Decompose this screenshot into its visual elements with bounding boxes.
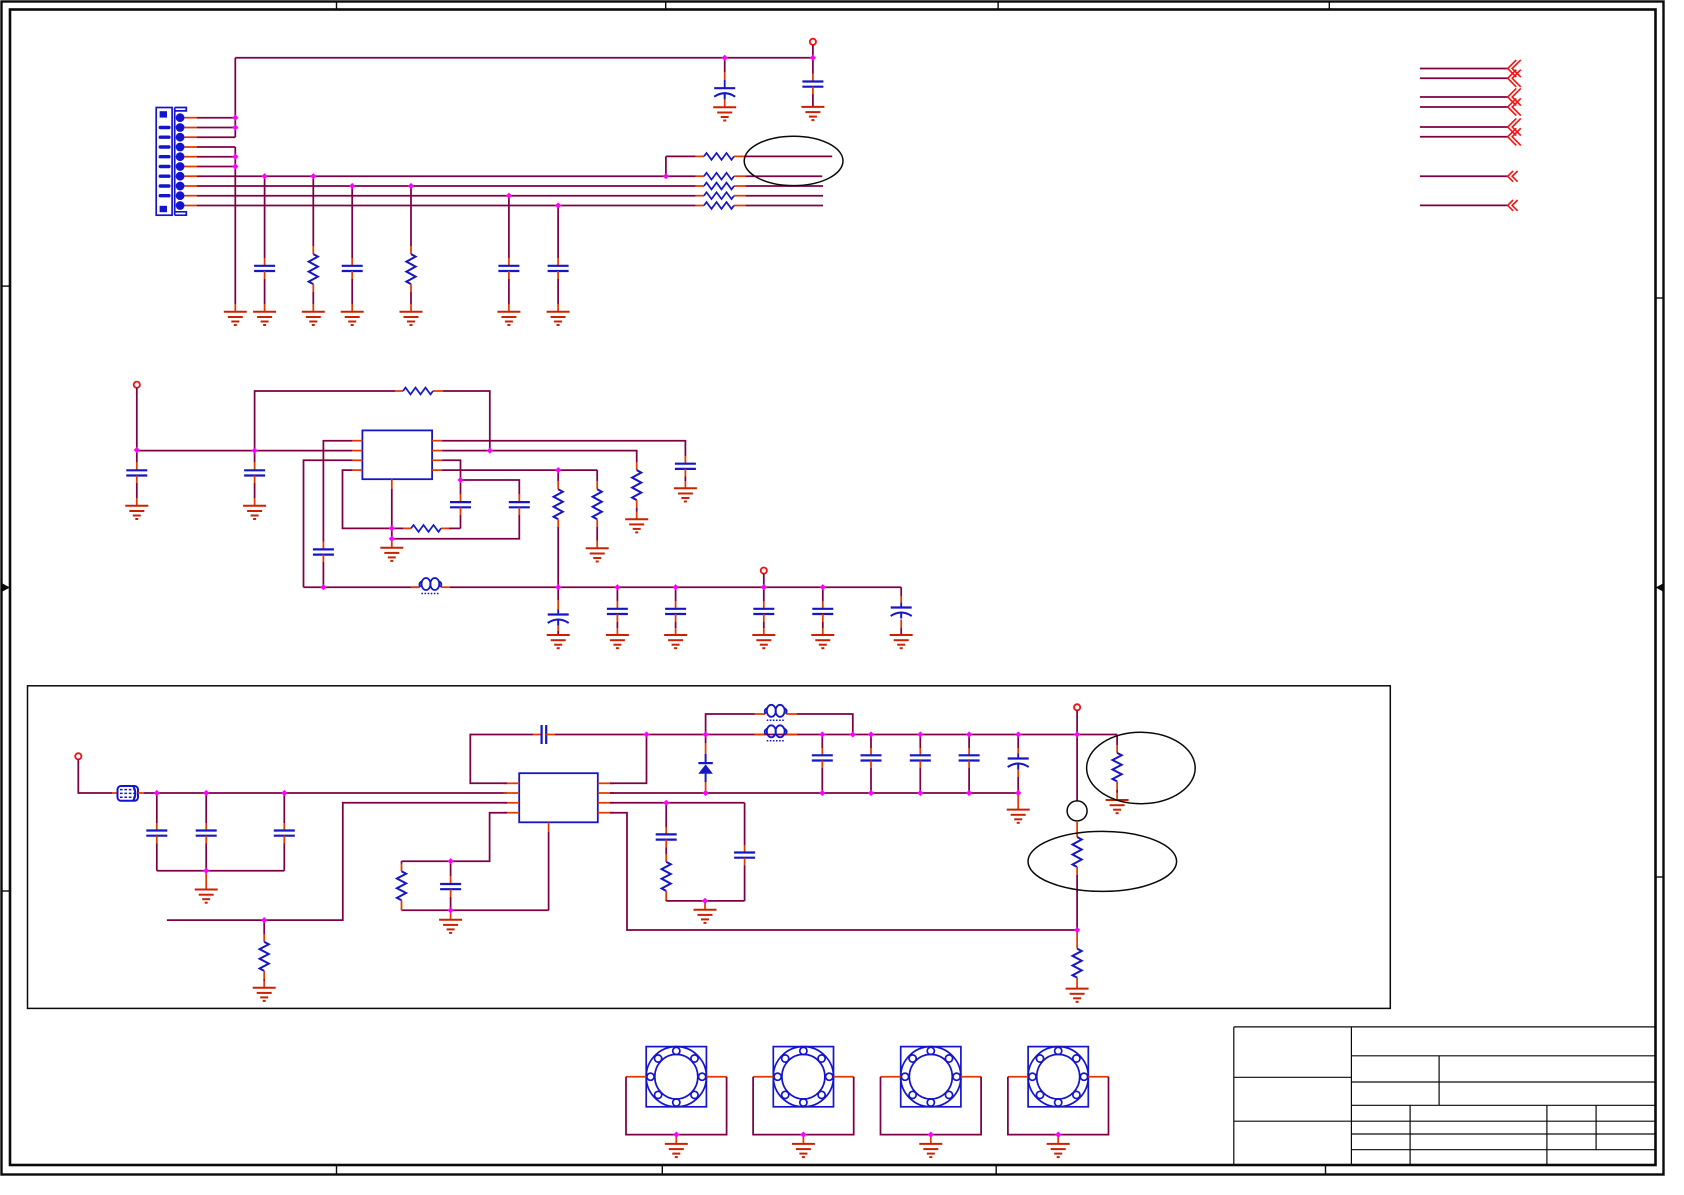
capacitor C29 [656, 834, 677, 839]
resistor R15 [1073, 949, 1082, 978]
resistor R13 [1113, 753, 1122, 782]
junction C9 rail [320, 584, 326, 590]
off-page net line 8 [1420, 204, 1508, 206]
junction U1 bottom / R4 [389, 525, 395, 531]
resistor R14 [1073, 837, 1082, 867]
capacitor C26 [959, 755, 980, 760]
wire bead to U2 [138, 792, 144, 794]
capacitor C24 [861, 755, 882, 760]
resistor R12 [554, 489, 563, 519]
resistor R13 lower lead [1116, 781, 1118, 790]
resistor R15 lower lead [1076, 978, 1078, 989]
wire VIN2 horizontal to U1 [137, 450, 353, 452]
wire U1 pin3 left to rail [304, 460, 353, 587]
junction pin1 [232, 115, 238, 121]
capacitor C4 lower lead [351, 271, 353, 279]
capacitor C21 lower lead [283, 836, 285, 844]
capacitor C13 [607, 609, 628, 614]
ground for C4 [341, 312, 364, 325]
capacitor C4 [342, 266, 363, 271]
junction C19 [154, 790, 160, 796]
capacitor C10 lead [460, 480, 462, 494]
resistor R6 [704, 173, 734, 180]
capacitor C7 lower lead [136, 476, 138, 484]
resistor R14 lower lead [1076, 867, 1078, 875]
ground for C13 [606, 635, 629, 648]
wire SIG1 branch up [665, 156, 667, 176]
ground for R10 [625, 519, 648, 532]
mounting hole MH2 ground stub [802, 1135, 804, 1144]
border zone ticks top [337, 2, 1330, 10]
junction L2 branch right [850, 731, 856, 737]
capacitor C3 lower lead [264, 271, 266, 279]
junction SIG3 at C5 [506, 193, 512, 199]
off-page chevron arrow 2 [1508, 70, 1521, 87]
capacitor C19 [146, 831, 167, 836]
resistor R9 leads [696, 205, 704, 207]
off-page net line 4 [1420, 106, 1508, 108]
inductor L3 [765, 725, 787, 737]
resistor R18 lead [263, 920, 265, 934]
diode D1 [698, 754, 713, 782]
mounting hole MH1 stubs [626, 1076, 646, 1078]
capacitor C30 [440, 884, 461, 889]
wire U2 pin1 left boost loop [470, 735, 533, 784]
junction at C7 [252, 448, 258, 454]
capacitor C10 [450, 502, 471, 507]
capacitor C21 lead [283, 793, 285, 823]
ground for MH4 [1047, 1144, 1070, 1157]
wire U1 pin2 right [442, 451, 637, 462]
wire R4 right to C10 node [449, 527, 461, 529]
wire U2 pin4 right to feedback [610, 813, 1077, 930]
wire pin3 to VCC node [197, 136, 235, 138]
wire GND vertical drop [234, 147, 236, 304]
wire pin3 bottom return [666, 900, 744, 902]
inductor L3 leads [755, 734, 766, 736]
junction bus C25 [917, 790, 923, 796]
capacitor C7 lead [136, 450, 138, 462]
wire cap bank bottom bus [157, 870, 284, 872]
wire VIN2 drop [136, 388, 138, 450]
junction boost/pin1 riser [643, 731, 649, 737]
capacitor C27 lower lead [1017, 770, 1019, 778]
capacitor C22 series lead [533, 734, 542, 736]
off-page net line 6 [1420, 136, 1508, 138]
capacitor C17 lower lead [822, 614, 824, 622]
wire net SIG2 pin8 [197, 185, 696, 187]
resistor R2 lower lead [410, 284, 412, 292]
capacitor C17 [812, 609, 833, 614]
resistor R17 lead [401, 861, 403, 863]
wire U2 pin2 output bus [610, 792, 1018, 794]
wire VCC vertical riser [234, 58, 236, 137]
ground for C6 [547, 312, 570, 325]
wire U1 pin1 left [323, 441, 352, 542]
mounting hole MH3 wires [881, 1077, 982, 1135]
junction pin3 loop [457, 477, 463, 483]
resistor R1 lower lead [312, 284, 314, 292]
ground for R13 [1106, 800, 1129, 813]
capacitor C24 lower lead [870, 761, 872, 769]
wire R4 left lead [392, 527, 403, 529]
ground for R11 [586, 548, 609, 561]
resistor R7 leads [696, 185, 704, 187]
capacitor C9 lower lead [322, 555, 324, 562]
capacitor C16 lead [763, 587, 765, 601]
ground stub cap bank [205, 871, 207, 890]
wire loop to C11 [461, 480, 520, 494]
junction rail C13 [614, 584, 620, 590]
wire pin1 riser [610, 735, 647, 784]
mounting hole MH1 wires [626, 1077, 727, 1135]
off-page chevron arrow 1 [1508, 60, 1521, 77]
capacitor C2 lower lead [812, 87, 814, 94]
wire VCC top rail [235, 57, 813, 59]
mounting hole MH3 stubs [881, 1076, 901, 1078]
capacitor C29 lead [665, 803, 667, 827]
connector J1 contact bars [159, 126, 171, 129]
wire terminal VOUT2 stub [763, 574, 765, 588]
off-page net line 3 [1420, 96, 1508, 98]
junction SIG4 at C6 [555, 202, 561, 208]
capacitor C11 [509, 502, 530, 507]
junction rail C14 [673, 584, 679, 590]
junction pin5 [232, 154, 238, 160]
wire R16 corner [665, 900, 667, 901]
ground for MH2 [792, 1144, 815, 1157]
diode D1 lead bottom [705, 782, 707, 790]
ground for bus end [1007, 810, 1030, 823]
ground stub U1 [391, 539, 393, 548]
junction C30 bottom [448, 907, 454, 913]
resistor R8 [704, 192, 734, 199]
capacitor C3 [254, 266, 275, 271]
junction VCC rail C2 [810, 55, 816, 61]
ellipse callout R13 [1087, 732, 1196, 803]
capacitor C23 lower lead [821, 761, 823, 769]
resistor R18 lower lead [263, 971, 265, 979]
mounting hole MH4 junction [1055, 1132, 1061, 1138]
junction C21 [281, 790, 287, 796]
off-page chevron arrow 8 [1508, 200, 1518, 211]
ground for C30 node [439, 920, 462, 933]
wire pin6 to GND net [197, 166, 235, 168]
junction pin3 branch [663, 800, 669, 806]
mounting hole MH1 pad [646, 1047, 706, 1107]
capacitor C26 lead [968, 735, 970, 749]
wire bottom node [391, 528, 393, 538]
junction D1 bus [703, 790, 709, 796]
capacitor C25 lead [919, 735, 921, 749]
wire terminal VOUT3 stub [1076, 710, 1078, 734]
junction top C23 [819, 731, 825, 737]
wire R3 to pin2 node [443, 391, 490, 451]
connector J1 pins [176, 113, 185, 122]
junction bus end [1015, 790, 1021, 796]
capacitor C16 [753, 609, 774, 614]
junction R12 rail [555, 584, 561, 590]
off-page chevron arrow 3 [1508, 88, 1521, 105]
wire drop at x=558.1 [557, 206, 559, 259]
wire U2 pin4 left [451, 813, 507, 862]
capacitor C18 lower lead [900, 620, 902, 629]
capacitor C12 lead [684, 456, 686, 464]
wire R6 to output [746, 175, 823, 177]
U1 left pin stubs [352, 440, 362, 442]
wire drop at x=352.2 [351, 186, 353, 258]
capacitor C19 lower lead [156, 836, 158, 844]
capacitor C19 lead [156, 793, 158, 823]
junction feedback node [1074, 927, 1080, 933]
off-page chevron arrow 5 [1508, 118, 1521, 135]
junction top C25 [917, 731, 923, 737]
mounting hole MH4 pad [1028, 1047, 1088, 1107]
capacitor C18 (polarized) lead [900, 587, 902, 596]
resistor R12 lead [557, 470, 559, 481]
wire pin5 to GND net [197, 156, 235, 158]
ground for C1 [713, 107, 736, 120]
junction bus C24 [868, 790, 874, 796]
junction pin4 left branch [448, 858, 454, 864]
wire to R17 [402, 860, 451, 862]
junction pin6 [232, 163, 238, 169]
terminal VOUT3 [1074, 704, 1080, 710]
wire U1 pin3 right [442, 460, 460, 480]
wire U1 pin1 right [442, 441, 685, 456]
off-page chevron arrow 4 [1508, 98, 1521, 115]
junction SIG2 at C4 [349, 183, 355, 189]
ground stub bus end [1017, 793, 1019, 810]
capacitor C27 (polarized) lead [1017, 735, 1019, 749]
title block outline [1234, 1027, 1656, 1164]
diode D1 lead top [705, 735, 707, 744]
resistor R3 [403, 388, 433, 395]
junction bus C26 [966, 790, 972, 796]
U2 right pin stubs [598, 782, 614, 784]
terminal VIN2 [134, 382, 140, 388]
mounting hole MH1 junction [673, 1132, 679, 1138]
ground stub pin3 node [704, 901, 706, 910]
capacitor C28 [734, 853, 755, 858]
wire R8 to output [746, 195, 823, 197]
junction VIN2 [134, 447, 140, 453]
inductor L2 [765, 705, 787, 717]
wire drop at x=313.3 [312, 176, 314, 246]
wire SIG1 to R6 [666, 175, 696, 177]
wire U1 pin4 left wrap [343, 470, 392, 528]
resistor R9 [704, 202, 734, 209]
ground for pin3 node [694, 910, 717, 923]
resistor R3 leads [395, 390, 403, 392]
capacitor C12 [675, 464, 696, 469]
capacitor C14 lead [675, 587, 677, 601]
border zone ticks bottom [337, 1164, 1326, 1174]
border center arrow right [1656, 584, 1664, 592]
capacitor C11 lead [518, 494, 520, 502]
title block table grid [1351, 1105, 1655, 1165]
capacitor C29 lower lead [665, 840, 667, 848]
capacitor C6 [548, 266, 569, 271]
junction SIG1 at R1 [310, 173, 316, 179]
resistor R5 [704, 153, 734, 160]
junction rail C16 [820, 584, 826, 590]
wire output rail VOUT [304, 586, 420, 588]
op-amp U2 converter body [519, 773, 598, 822]
capacitor C16 lower lead [763, 614, 765, 622]
junction SIG2 at R2 [408, 183, 414, 189]
junction VOUT3 [1074, 731, 1080, 737]
wire pin1 to VCC node [197, 117, 235, 119]
op-amp U1 regulator body [362, 430, 432, 479]
wire U1 bottom pin down [391, 489, 393, 528]
wire R9 to output [746, 205, 823, 207]
resistor R10 lead [636, 462, 638, 470]
off-page net line 1 [1420, 68, 1508, 70]
wire pin3 corner down [744, 803, 746, 845]
wire U2 pin3 right [610, 802, 745, 804]
junction R3/pin2 [487, 448, 493, 454]
capacitor C13 lead [616, 587, 618, 601]
capacitor C15 polarized [548, 615, 569, 626]
wire drop at x=411.0 [410, 186, 412, 246]
ground for C3 [253, 312, 276, 325]
border zone ticks left [2, 286, 11, 891]
wire output rail VOUT right [450, 586, 901, 588]
junction VCC rail C1 [722, 55, 728, 61]
capacitor C13 lower lead [616, 614, 618, 622]
connector J1 polarization squares [160, 111, 167, 117]
junction pin2 [232, 124, 238, 130]
inductor L2 leads [755, 713, 766, 715]
wire U2 bottom return line [402, 909, 549, 911]
inductor L1 [411, 586, 420, 588]
ground for cap bank [195, 890, 218, 903]
capacitor C5 lower lead [508, 271, 510, 279]
capacitor C22 right lead [546, 734, 555, 736]
mounting hole MH2 wires [753, 1077, 854, 1135]
ground for C8 [243, 506, 266, 519]
ground for C12 [674, 488, 697, 501]
junction bus C23 [819, 790, 825, 796]
mounting hole MH3 ground stub [930, 1135, 932, 1144]
border zone ticks right [1656, 298, 1665, 877]
capacitor C30 lower lead [450, 889, 452, 897]
junction top C27 [1015, 731, 1021, 737]
wire net SIG4 pin10 [197, 205, 696, 207]
mounting hole MH4 ground stub [1057, 1135, 1059, 1144]
resistor R11 [593, 489, 602, 519]
resistor R18 [260, 942, 269, 971]
ground for C18 [890, 635, 913, 648]
title block right rows [1351, 1056, 1655, 1106]
junction rail terminal [761, 584, 767, 590]
junction top C24 [868, 731, 874, 737]
wire U2 pin3 left [167, 803, 507, 920]
capacitor C17 lead [822, 587, 824, 601]
capacitor C26 lower lead [968, 761, 970, 769]
inductor L2 right lead [786, 713, 797, 715]
capacitor C15 (polarized) lead [557, 587, 559, 600]
title block left column rows [1234, 1077, 1352, 1121]
ground for R1 [302, 312, 325, 325]
ground for MH3 [919, 1144, 942, 1157]
power section enclosure box [28, 686, 1391, 1009]
mounting hole MH1 ground stub [675, 1135, 677, 1144]
mounting hole MH4 wires [1008, 1077, 1109, 1135]
ground for C14 [664, 635, 687, 648]
U1 right pin stubs [432, 440, 442, 442]
capacitor C1 polarized [714, 88, 735, 99]
ground for R18 [253, 988, 276, 1001]
wire net SIG3 pin9 [197, 195, 696, 197]
ground for C7 [125, 506, 148, 519]
terminal VOUT2 [761, 568, 767, 574]
wire net SIG1 pin7 [197, 175, 666, 177]
capacitor C10 lower lead [460, 507, 462, 515]
U1 bottom pin stub [391, 479, 393, 489]
resistor R5 leads [696, 155, 704, 157]
wire boost top line [555, 734, 1117, 736]
capacitor C21 [274, 831, 295, 836]
capacitor C8 lead [254, 451, 256, 462]
resistor R1 [309, 254, 318, 284]
ground connector GND pins [224, 312, 247, 325]
resistor R6 leads [696, 175, 704, 177]
capacitor C11 lower lead [518, 507, 520, 515]
off-page net line 7 [1420, 175, 1508, 177]
junction ground node [389, 536, 395, 542]
resistor R10 [632, 470, 641, 500]
mounting hole MH3 pad [901, 1047, 961, 1107]
wire pin4 corner down [596, 470, 598, 481]
wire drop at x=508.9 [508, 196, 510, 258]
connector J1 pin stubs [185, 117, 198, 119]
ground for R2 [400, 312, 423, 325]
capacitor C20 [196, 831, 217, 836]
resistor R13 lead [1116, 745, 1118, 753]
off-page net line 5 [1420, 126, 1508, 128]
wire feedback chain upper [1076, 735, 1078, 801]
capacitor C27 polarized [1008, 759, 1029, 770]
wire R7 to output [746, 185, 823, 187]
junction R18 [261, 917, 267, 923]
ferrite bead FB1 [118, 786, 139, 801]
mounting hole MH2 junction [800, 1132, 806, 1138]
ellipse callout R14 [1028, 831, 1177, 891]
wire feedback top branch [255, 391, 395, 451]
ground for C17 [811, 635, 834, 648]
capacitor C2 [802, 82, 823, 87]
mounting hole MH4 stubs [1008, 1076, 1028, 1078]
wire terminal to rail [812, 45, 814, 58]
wire pin4 to GND net [197, 146, 235, 148]
junction top C26 [966, 731, 972, 737]
resistor R11 lead [596, 481, 598, 489]
junction pin4/R12 [555, 467, 561, 473]
wire pin2 to VCC node [197, 127, 235, 129]
junction pin3 ground node [702, 898, 708, 904]
ground for C5 [497, 312, 520, 325]
capacitor C15 lower lead [557, 626, 559, 632]
capacitor C14 [665, 609, 686, 614]
resistor R8 leads [696, 195, 704, 197]
ground for C16 [752, 635, 775, 648]
capacitor C25 [910, 755, 931, 760]
terminal VIN3 [75, 753, 81, 759]
capacitor C8 lower lead [254, 476, 256, 484]
junction SIG1 branch [663, 173, 669, 179]
